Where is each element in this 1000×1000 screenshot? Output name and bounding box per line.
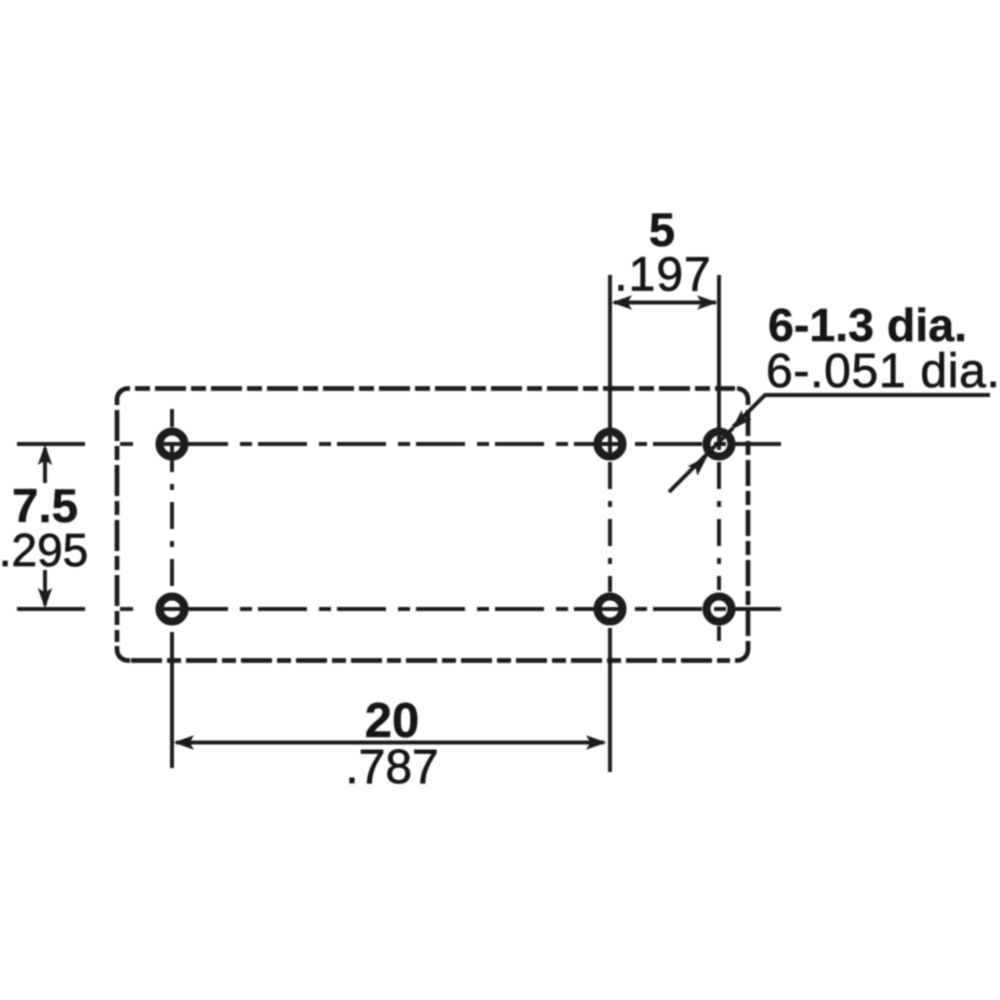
hole C2: [707, 597, 732, 622]
dimension line 5 horizontal: [614, 301, 716, 305]
arrowhead right (20 dim): [586, 735, 607, 749]
relay outline: top edge dashed: [135, 386, 735, 391]
hole C1: [707, 432, 732, 457]
relay outline: top-right corner arc: [737, 389, 748, 406]
relay outline: right edge dashed: [746, 410, 751, 644]
dimension line 7.5 vertical lower stem: [43, 570, 47, 605]
hole B2: [598, 597, 623, 622]
svg-text:6-.051 dia.: 6-.051 dia.: [766, 345, 1000, 398]
stub below hole C2: [717, 626, 721, 641]
relay outline: left edge dashed: [115, 410, 120, 642]
arrowhead left (20 dim): [174, 735, 195, 749]
center line / extension column C vertical (x=719): [717, 275, 721, 450]
center line row2 horizontal: [17, 607, 85, 611]
svg-text:6-1.3 dia.: 6-1.3 dia.: [768, 299, 967, 351]
svg-text:.787: .787: [345, 741, 438, 794]
arrowhead down (7.5 bottom): [38, 588, 52, 609]
relay outline: bottom edge dashed: [131, 658, 730, 663]
arrowhead leader to hole C1 (down-left): [732, 410, 752, 430]
arrowhead up (7.5 top): [38, 445, 52, 466]
svg-text:.295: .295: [0, 524, 88, 576]
leader tail line lower-left of hole C1: [669, 428, 733, 492]
leader line for 6-1.3 dia.: [733, 395, 990, 427]
extension line below hole B2 for 20 dim: [608, 628, 612, 772]
center line row1 horizontal: [17, 442, 85, 446]
svg-text:.197: .197: [614, 249, 711, 302]
relay outline: bottom-left corner arc: [117, 646, 130, 661]
relay outline: top-left corner arc: [117, 389, 130, 406]
arrowhead leader from lower-left (up-right): [688, 456, 708, 476]
center line / extension column B vertical (x=610): [608, 275, 612, 458]
arrowhead right (5 dim): [697, 295, 718, 309]
hole A2: [160, 597, 185, 622]
relay outline: bottom-right corner arc: [735, 644, 748, 661]
hole B1: [598, 432, 623, 457]
center line column A vertical (x=172): [170, 409, 174, 427]
arrowhead left (5 dim): [612, 295, 633, 309]
dimension line 7.5 vertical upper stem: [43, 448, 47, 483]
hole A1: [160, 432, 185, 457]
svg-text:20: 20: [365, 694, 420, 748]
dimension line 20 horizontal: [176, 741, 604, 745]
extension line below hole A2 for 20 dim: [170, 632, 174, 768]
